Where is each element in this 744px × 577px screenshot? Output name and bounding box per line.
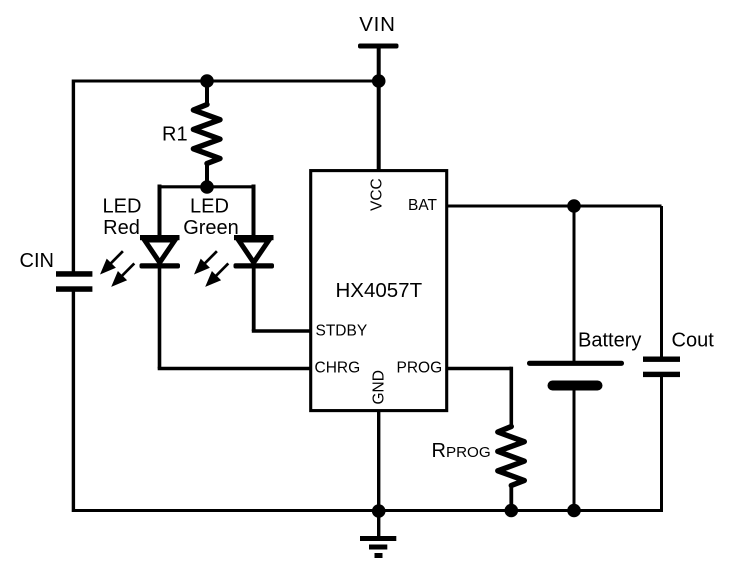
wire: battery bottom lead [573, 390, 576, 511]
wire: RPROG bottom lead [509, 485, 513, 512]
node: junction dot at LED anode bus [200, 180, 214, 194]
svg-text:R1: R1 [162, 124, 188, 146]
wire: STDBY horizontal to IC [252, 329, 311, 332]
svg-text:LED: LED [190, 196, 229, 218]
wire: CHRG horizontal to IC [158, 367, 311, 371]
battery BT1 [527, 361, 624, 391]
svg-text:HX4057T: HX4057T [336, 279, 423, 302]
svg-text:LED: LED [103, 196, 142, 218]
LED D2 Green symbol [234, 235, 275, 269]
wire: LED Green cathode lead down [252, 268, 256, 331]
svg-text:Green: Green [183, 217, 239, 239]
wire: PROG horizontal [446, 367, 511, 371]
svg-text:Red: Red [103, 217, 140, 239]
wire: bottom ground bus [74, 509, 662, 512]
wire: RPROG top lead [509, 367, 513, 427]
svg-text:Battery: Battery [578, 330, 641, 352]
svg-text:BAT: BAT [408, 197, 438, 214]
LED D1 Red symbol [140, 235, 181, 269]
node: junction dot top bus at R1 [200, 74, 214, 88]
node: junction dot top bus at VIN [372, 74, 386, 88]
capacitor CIN [56, 271, 92, 292]
svg-text:Cout: Cout [672, 330, 715, 352]
svg-text:CHRG: CHRG [315, 360, 361, 377]
svg-text:CIN: CIN [20, 250, 54, 272]
wire: Cout bottom lead [660, 377, 663, 512]
svg-text:VIN: VIN [359, 13, 396, 36]
svg-text:VCC: VCC [369, 178, 386, 211]
svg-text:GND: GND [371, 370, 388, 404]
wire: top horizontal bus [74, 80, 379, 83]
wire: BAT horizontal [446, 205, 662, 208]
capacitor Cout [643, 357, 680, 378]
wire: VIN vertical lead to VCC pin [377, 46, 381, 170]
wire: LED Red anode lead [158, 185, 162, 238]
wire: GND lead from IC [377, 411, 380, 512]
svg-text:PROG: PROG [397, 360, 443, 377]
wire: battery top lead [573, 206, 576, 361]
terminal VIN bar [358, 44, 399, 49]
wire: LED Red cathode lead down [158, 268, 162, 369]
wire: LED anode bus [160, 185, 254, 188]
resistor R1 [193, 105, 220, 164]
wire: Cout top lead from BAT wire [660, 206, 663, 358]
svg-text:RPROG: RPROG [432, 440, 491, 462]
wire: R1 top lead [205, 81, 209, 106]
svg-text:STDBY: STDBY [316, 323, 368, 340]
ground symbol [360, 511, 396, 558]
resistor RPROG [498, 427, 525, 486]
LED Green emission arrows [194, 251, 228, 287]
wire: CIN top lead [72, 80, 75, 273]
node: junction dot BAT / battery [567, 199, 581, 213]
wire: CIN bottom lead [72, 291, 75, 512]
wire: LED Green anode lead [252, 185, 256, 238]
wire: R1 bottom lead [205, 163, 209, 186]
IC U1 HX4057T box [311, 171, 447, 411]
node: junction dot bottom bus at GND [372, 504, 386, 518]
LED Red emission arrows [100, 251, 134, 287]
node: junction dot bottom bus at battery [567, 504, 581, 518]
node: junction dot bottom bus at RPROG [505, 504, 519, 518]
